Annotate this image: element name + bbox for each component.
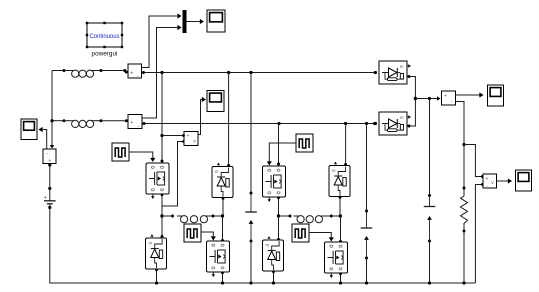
wire node A2 down to D5 anode bbox=[277, 216, 280, 241]
wire VM4 output to scope 5 bbox=[497, 178, 513, 183]
junction ground rail / D3 bbox=[155, 281, 158, 284]
wire PG4 to Q4 gate bbox=[309, 233, 334, 242]
wire node B2 to Q4 drain bbox=[339, 216, 342, 243]
measurement block VM1 bbox=[43, 149, 56, 164]
wire left source rail bbox=[50, 71, 54, 149]
diode D5 bbox=[263, 236, 284, 271]
DC voltage source B1 bbox=[44, 188, 56, 209]
inductor L2 bbox=[68, 120, 97, 127]
junction row1 / Q1 drain bbox=[160, 71, 163, 74]
capacitor C1 bbox=[245, 192, 257, 243]
junction row2 / C2 bbox=[365, 122, 368, 125]
svg-text:m: m bbox=[215, 169, 219, 174]
junction row1 / C1 bbox=[249, 71, 252, 74]
wire load node to resistor bbox=[463, 145, 466, 190]
D6 anode port bbox=[374, 122, 377, 125]
diode D4 bbox=[329, 162, 350, 197]
wire C1 to ground rail bbox=[250, 241, 252, 283]
Q4 m-port stub bbox=[330, 274, 333, 279]
wire row2 to Q3 drain bbox=[277, 124, 280, 166]
MOSFET Q1 bbox=[146, 163, 169, 194]
diode D1 bbox=[379, 61, 411, 84]
inductor L3 bbox=[177, 216, 211, 223]
diode D6 bbox=[379, 112, 411, 135]
svg-text:m: m bbox=[400, 115, 404, 120]
svg-text:-: - bbox=[46, 151, 48, 157]
pulse generator PG2 bbox=[184, 224, 201, 242]
wire VM2 output to scope 3 bbox=[198, 97, 206, 135]
wire inductor row bridge2 bbox=[279, 215, 341, 218]
wire PG1 to Q1 gate bbox=[129, 152, 155, 162]
wire CM1 i-output to mux input 1 bbox=[141, 13, 182, 67]
wire VM2 plus tap bbox=[160, 134, 185, 137]
junction output node / C3 bbox=[428, 97, 431, 100]
svg-text:+: + bbox=[48, 158, 51, 164]
mux M1 bbox=[183, 10, 187, 33]
wire Q2 source to ground rail bbox=[221, 271, 224, 283]
wire Q1 source to node A bbox=[161, 193, 164, 216]
resistor R1 bbox=[461, 188, 468, 233]
svg-text:+: + bbox=[187, 134, 190, 140]
node A2 junction bbox=[277, 214, 280, 217]
junction row1 / D2 cathode bbox=[227, 71, 230, 74]
scope Scope2 bbox=[21, 119, 37, 140]
wire PG3 to Q3 gate bbox=[267, 143, 296, 166]
wire inductor row bridge1 bbox=[162, 215, 223, 218]
wire ground rail to VM4 minus bbox=[475, 183, 484, 283]
wire node B to Q2 drain bbox=[221, 216, 224, 242]
junction row2 / Q3 drain bbox=[277, 122, 280, 125]
Q3 m-port stub bbox=[268, 198, 271, 203]
wire row 2 bus bbox=[143, 122, 377, 125]
wire C3 to ground rail bbox=[429, 241, 431, 283]
svg-text:Continuous: Continuous bbox=[90, 33, 120, 40]
wire battery negative to ground rail bbox=[50, 208, 476, 284]
wire input rail row 2 left segment bbox=[52, 119, 128, 122]
wire load node to VM4 plus bbox=[464, 145, 484, 179]
svg-text:m: m bbox=[332, 168, 336, 173]
wire D2 anode to node B bbox=[222, 197, 225, 216]
inductor L1 bbox=[68, 70, 97, 77]
MOSFET Q4 bbox=[325, 242, 348, 273]
current measurement CM1 bbox=[125, 64, 142, 80]
wire resistor to ground rail bbox=[463, 231, 465, 283]
wire PG2 to Q2 gate bbox=[201, 232, 216, 241]
capacitor C2 bbox=[361, 210, 373, 260]
Q2 m-port stub bbox=[212, 273, 215, 278]
capacitor C3 bbox=[424, 194, 436, 243]
node B2 junction bbox=[339, 214, 342, 217]
wire output node to C3 bbox=[429, 99, 431, 196]
measurement block VM3 bbox=[442, 91, 456, 105]
voltage measurement VM4 bbox=[483, 174, 497, 190]
scope Scope1 bbox=[207, 10, 225, 32]
junction load node bbox=[462, 143, 465, 146]
node A junction bbox=[160, 214, 163, 217]
wire row 1 bus bbox=[142, 71, 377, 74]
junction ground rail / Q2 bbox=[221, 281, 224, 284]
diode D3 bbox=[146, 234, 167, 269]
wire row1 to C1 bbox=[250, 73, 252, 194]
svg-text:powergui: powergui bbox=[92, 51, 118, 58]
wire VM1 output to scope 2 bbox=[39, 127, 47, 149]
voltage measurement VM2 bbox=[184, 132, 198, 146]
wire row2 to C2 bbox=[366, 124, 368, 212]
svg-text:+: + bbox=[44, 195, 47, 201]
wire D2 cathode to row1 bbox=[227, 73, 230, 168]
wire D3 cathode to ground rail bbox=[155, 268, 158, 283]
wire D5 cathode to ground rail bbox=[272, 270, 275, 283]
wire node A down to D3 anode bbox=[161, 216, 164, 238]
junction ground rail / D5 bbox=[272, 281, 275, 284]
svg-text:m: m bbox=[400, 64, 404, 69]
node B junction bbox=[221, 214, 224, 217]
wire VM3 output to scope 4 bbox=[456, 92, 484, 97]
Q1 m-port stub bbox=[151, 195, 154, 200]
wire VM3 to load node bbox=[456, 102, 465, 145]
junction ground rail / C2 bbox=[365, 281, 368, 284]
wire output node to VM3 bbox=[415, 96, 440, 100]
wire mux output to scope 1 bbox=[187, 19, 205, 24]
wire VM1 to battery bbox=[48, 163, 51, 190]
D1 anode port bbox=[374, 71, 377, 74]
junction ground rail / R1 bbox=[462, 281, 465, 284]
diode D2 bbox=[212, 163, 233, 198]
wire row1 to Q1 drain bbox=[161, 73, 164, 163]
wire CM2 i-output to mux input 2 bbox=[142, 25, 182, 118]
pulse generator PG3 bbox=[296, 134, 313, 152]
svg-text:+: + bbox=[130, 120, 133, 126]
current measurement CM2 bbox=[128, 115, 142, 130]
pulse generator PG1 bbox=[112, 143, 129, 161]
svg-text:+: + bbox=[486, 176, 489, 182]
powergui block bbox=[86, 22, 123, 58]
wire D4 anode to node B2 bbox=[339, 196, 342, 216]
wire C2 to ground rail bbox=[366, 258, 368, 283]
MOSFET Q3 bbox=[263, 166, 286, 197]
junction ground rail / C3 bbox=[428, 281, 431, 284]
scope Scope3 bbox=[207, 91, 224, 112]
svg-text:+: + bbox=[444, 94, 447, 100]
wire VM2 minus tap bbox=[162, 140, 185, 206]
wire Q4 source to ground rail bbox=[339, 272, 342, 283]
inductor L4 bbox=[294, 216, 327, 223]
scope Scope5 bbox=[516, 170, 532, 191]
junction ground rail / C1 bbox=[249, 281, 252, 284]
svg-text:+: + bbox=[130, 71, 133, 77]
junction output node bbox=[414, 97, 417, 100]
junction left rail / row 2 bbox=[50, 119, 53, 122]
junction ground rail / Q4 bbox=[339, 281, 342, 284]
svg-text:m: m bbox=[265, 242, 269, 247]
wire D1/D6 cathodes joined bbox=[408, 75, 416, 128]
MOSFET Q2 bbox=[207, 241, 230, 272]
wire input rail row 1 left segment bbox=[52, 69, 126, 72]
wire D4 cathode to row2 bbox=[344, 124, 347, 167]
wire Q3 source to node A2 bbox=[277, 196, 280, 216]
svg-text:m: m bbox=[148, 240, 152, 245]
pulse generator PG4 bbox=[292, 224, 309, 242]
junction row2 / D4 cathode bbox=[344, 122, 347, 125]
scope Scope4 bbox=[488, 85, 504, 106]
